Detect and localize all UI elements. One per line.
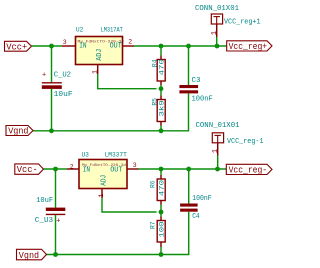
wire Vcc- to U3 IN bbox=[44, 168, 68, 170]
svg-text:1: 1 bbox=[211, 31, 219, 35]
svg-text:C_U2: C_U2 bbox=[54, 72, 72, 80]
svg-text:1: 1 bbox=[212, 149, 220, 153]
pin 3 (OUT) of U3 bbox=[127, 162, 139, 169]
wire Vcc- to C_U3 bbox=[55, 169, 57, 208]
wire U2 ADJ to R4/R5 node bbox=[98, 74, 157, 89]
global label Vcc- bbox=[15, 164, 44, 175]
resistor R5 3k9 bbox=[151, 89, 165, 131]
junction Vgnd bottom/C_U3 bbox=[53, 252, 58, 257]
wire C4 to Vgnd (bottom) bbox=[47, 212, 189, 255]
svg-text:CONN_01X01: CONN_01X01 bbox=[195, 5, 239, 13]
capacitor C3 100nF bbox=[179, 77, 213, 104]
svg-text:Vgnd: Vgnd bbox=[19, 250, 39, 261]
wire C3 to Vgnd bbox=[33, 93, 189, 130]
junction OUT/R6 bbox=[159, 167, 164, 172]
junction Vgnd/C_U2 bbox=[49, 128, 54, 133]
capacitor C_U3 10uF bbox=[35, 197, 66, 225]
svg-text:R4: R4 bbox=[151, 59, 158, 67]
svg-text:Vcc+: Vcc+ bbox=[6, 41, 27, 52]
wire Vcc+ to U2 IN bbox=[32, 45, 63, 47]
wire P1 to OUT rail bbox=[216, 37, 218, 46]
junction OUT/P1 bbox=[215, 44, 220, 49]
pin 2 (IN) of U3 bbox=[67, 163, 79, 170]
svg-text:U2: U2 bbox=[76, 26, 83, 33]
wire OUT to C4 bbox=[188, 169, 190, 204]
wire U2 OUT to Vcc_reg+ bbox=[134, 45, 227, 47]
svg-text:VCC_reg-1: VCC_reg-1 bbox=[227, 138, 264, 146]
junction Vcc+/C_U2 bbox=[49, 44, 54, 49]
svg-text:IN: IN bbox=[83, 167, 90, 175]
svg-text:C3: C3 bbox=[192, 77, 201, 85]
svg-text:R6: R6 bbox=[149, 180, 156, 188]
junction OUT/C4 bbox=[186, 167, 191, 172]
pin 1 (ADJ) of U2 bbox=[92, 65, 99, 75]
wire C_U3 to Vgnd bbox=[55, 215, 57, 255]
svg-text:100nF: 100nF bbox=[192, 195, 212, 203]
global label Vgnd (bottom) bbox=[17, 249, 47, 261]
svg-text:Vcc_reg+: Vcc_reg+ bbox=[229, 42, 268, 52]
svg-text:+: + bbox=[56, 217, 60, 225]
wire U3 ADJ to R6/R7 node bbox=[102, 198, 157, 212]
global label Vcc_reg+ bbox=[227, 41, 272, 52]
svg-text:Vcc-: Vcc- bbox=[17, 164, 38, 175]
junction OUT/R4 bbox=[159, 44, 164, 49]
svg-text:CONN_01X01: CONN_01X01 bbox=[196, 122, 240, 130]
svg-text:1: 1 bbox=[92, 70, 99, 74]
wire P2 to OUT rail bbox=[217, 156, 219, 170]
capacitor C4 100nF bbox=[180, 195, 212, 221]
svg-text:10uF: 10uF bbox=[36, 197, 53, 205]
global label Vgnd (top) bbox=[6, 126, 33, 137]
junction R4/R5/ADJ bbox=[159, 86, 164, 91]
junction Vgnd bottom/R7 bbox=[159, 252, 164, 257]
resistor R6 470 bbox=[149, 169, 165, 212]
svg-text:10uF: 10uF bbox=[54, 91, 73, 99]
svg-text:LM317AT: LM317AT bbox=[101, 26, 123, 33]
regulator U2 LM317AT body bbox=[76, 26, 125, 64]
resistor R7 100 bbox=[149, 212, 165, 255]
svg-text:ADJ: ADJ bbox=[101, 175, 109, 186]
wire C_U2 to Vgnd bbox=[51, 89, 53, 131]
svg-text:2: 2 bbox=[70, 163, 74, 170]
svg-text:3: 3 bbox=[63, 39, 67, 46]
regulator U3 LM337T body bbox=[79, 152, 127, 189]
svg-text:100: 100 bbox=[159, 221, 166, 238]
junction OUT/P2 bbox=[215, 167, 220, 172]
svg-text:VCC_reg+1: VCC_reg+1 bbox=[224, 19, 261, 27]
connector P2 CONN_01X01 bbox=[196, 122, 264, 146]
connector P1 CONN_01X01 bbox=[195, 5, 261, 27]
svg-text:ADJ: ADJ bbox=[96, 49, 104, 61]
svg-text:470: 470 bbox=[159, 59, 166, 76]
svg-text:470: 470 bbox=[159, 180, 166, 197]
junction OUT/C3 bbox=[186, 44, 191, 49]
resistor R4 470 bbox=[151, 46, 165, 89]
svg-text:Vcc_reg-: Vcc_reg- bbox=[229, 166, 268, 176]
pin 2 (OUT) of U2 bbox=[123, 38, 135, 46]
svg-text:OUT: OUT bbox=[110, 43, 123, 51]
pin 1 (ADJ) of U3 bbox=[98, 189, 105, 199]
wire Vcc+ to C_U2 bbox=[51, 46, 53, 82]
svg-text:100nF: 100nF bbox=[192, 96, 214, 104]
junction R6/R7/ADJ bbox=[159, 210, 164, 215]
pin 3 (IN) of U2 bbox=[62, 39, 76, 46]
junction Vgnd/R5 bbox=[159, 128, 164, 133]
svg-text:+: + bbox=[42, 71, 46, 79]
pin 1 of P1 bbox=[211, 24, 219, 37]
svg-text:2: 2 bbox=[128, 38, 132, 45]
pin 1 of P2 bbox=[212, 143, 220, 156]
svg-text:C_U3: C_U3 bbox=[35, 217, 54, 225]
wire U3 OUT to Vcc_reg- bbox=[139, 168, 227, 170]
svg-text:Vgnd: Vgnd bbox=[8, 126, 28, 137]
svg-text:LM337T: LM337T bbox=[105, 152, 127, 159]
svg-text:IN: IN bbox=[79, 43, 86, 51]
svg-text:3k9: 3k9 bbox=[159, 100, 166, 117]
global label Vcc_reg- bbox=[226, 164, 272, 175]
svg-text:OUT: OUT bbox=[110, 167, 123, 175]
global label Vcc+ bbox=[5, 41, 32, 52]
svg-text:1: 1 bbox=[98, 194, 105, 198]
wire OUT to C3 bbox=[188, 46, 190, 85]
svg-text:R7: R7 bbox=[149, 221, 156, 229]
capacitor C_U2 10uF bbox=[42, 71, 73, 99]
svg-text:R5: R5 bbox=[151, 98, 158, 106]
svg-text:3: 3 bbox=[133, 162, 137, 169]
svg-text:U3: U3 bbox=[82, 152, 89, 159]
junction Vcc-/C_U3 bbox=[53, 167, 58, 172]
svg-text:C4: C4 bbox=[192, 213, 200, 221]
